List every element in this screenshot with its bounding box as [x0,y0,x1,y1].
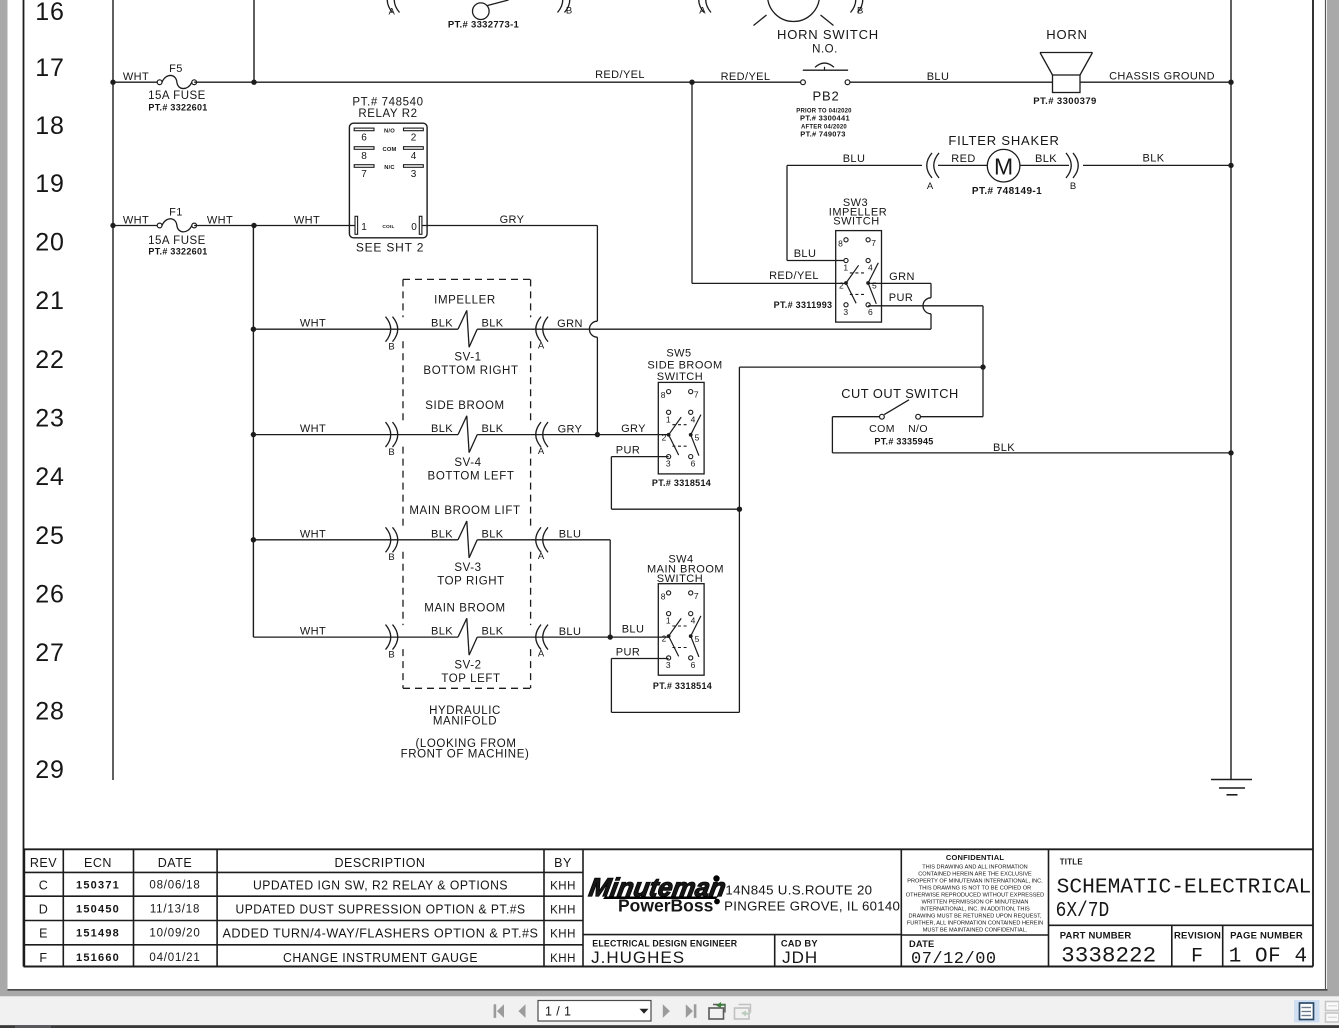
svg-text:D: D [39,902,49,916]
svg-text:MAIN BROOM LIFT: MAIN BROOM LIFT [409,505,520,517]
svg-text:15A FUSE: 15A FUSE [148,90,206,102]
connector A SV-2 [536,625,541,650]
svg-text:4: 4 [868,263,873,273]
wire WHT F1 to relay R2 coil [194,225,355,227]
svg-text:15A FUSE: 15A FUSE [148,235,206,247]
wire BLK horn to chassis ground bus [1080,81,1231,83]
svg-text:F5: F5 [169,63,183,75]
svg-text:2: 2 [839,281,844,291]
svg-text:N/C: N/C [384,165,395,171]
svg-text:04/01/21: 04/01/21 [149,952,200,964]
svg-text:FURTHER, ALL INFORMATION CONTA: FURTHER, ALL INFORMATION CONTAINED HEREI… [907,920,1043,926]
SW5 pin 4 [689,410,693,414]
svg-text:F1: F1 [169,207,183,219]
svg-text:E: E [39,927,48,941]
svg-text:BLU: BLU [927,71,950,83]
svg-text:SW5: SW5 [666,348,691,360]
drawing frame left border [23,0,25,967]
svg-text:KHH: KHH [550,904,576,916]
svg-text:24: 24 [35,463,64,491]
connector B SV-4 [393,422,398,447]
svg-text:BLK: BLK [482,626,504,638]
Minuteman logo [587,874,728,902]
wire WHT to SV-3 [253,539,458,541]
node junction GRY [595,432,600,437]
svg-text:SV-4: SV-4 [454,457,481,469]
relay R2 body [349,123,427,238]
svg-text:REVISION: REVISION [1174,931,1221,942]
svg-text:2: 2 [662,634,667,644]
svg-text:8: 8 [361,151,367,162]
svg-text:SWITCH: SWITCH [833,216,879,228]
wire RED connector to motor [938,164,988,166]
svg-text:HORN: HORN [1046,27,1087,42]
svg-text:PT.# 3311993: PT.# 3311993 [774,300,833,310]
SW3 pin 3 [844,303,848,307]
svg-text:INTERNATIONAL, INC. IN ADDITIO: INTERNATIONAL, INC. IN ADDITION, THIS [920,906,1030,912]
svg-text:KHH: KHH [550,929,576,941]
wire PUR vertical to cut out switch [982,306,984,417]
fuse F5 15A [157,80,162,85]
horn speaker symbol [1053,75,1081,93]
svg-text:PUR: PUR [616,445,640,457]
svg-text:PT.# 3332773-1: PT.# 3332773-1 [448,20,520,31]
confidential box [900,849,902,966]
switch SW4 body [658,584,704,676]
svg-text:6: 6 [691,459,696,469]
wire N/O to PUR vertical [921,416,984,418]
solenoid coil SV-4 [458,416,477,453]
wire GRY SV-4 to junction [531,434,669,436]
svg-text:7: 7 [871,238,876,248]
svg-text:BLU: BLU [559,626,582,638]
svg-text:PT.# 749073: PT.# 749073 [800,130,845,139]
svg-text:RELAY R2: RELAY R2 [358,108,417,120]
svg-text:F: F [39,951,47,965]
svg-text:JDH: JDH [782,948,818,967]
SW4 pin 2 common pole [667,634,671,638]
svg-text:MAIN BROOM: MAIN BROOM [424,602,505,614]
chassis ground symbol [1211,779,1252,781]
svg-text:BOTTOM RIGHT: BOTTOM RIGHT [423,365,518,377]
svg-text:M: M [994,154,1013,180]
svg-text:3338222: 3338222 [1061,944,1156,969]
wire WHT to fuse F5 [113,81,160,83]
svg-text:BLK: BLK [993,442,1015,454]
svg-text:5: 5 [695,433,700,443]
svg-text:16: 16 [35,0,64,26]
svg-text:BLU: BLU [794,248,817,260]
connector B SV-2 [393,625,398,650]
pdf viewer bottom toolbar [0,991,1339,996]
hydraulic manifold dashed enclosure [402,279,404,317]
motor M filter shaker [987,149,1020,182]
svg-text:THIS DRAWING IS NOT TO BE COPI: THIS DRAWING IS NOT TO BE COPIED OR [919,885,1031,891]
SW5 pin 8 [667,390,671,394]
relay R2 coil pin 1 [355,216,358,234]
svg-text:A: A [927,181,934,192]
svg-text:B: B [388,342,394,353]
svg-text:PT.# 748149-1: PT.# 748149-1 [972,186,1042,197]
toolbar page box 1/1 [538,1001,651,1022]
svg-text:8: 8 [661,591,666,601]
svg-text:PowerBoss: PowerBoss [618,896,714,916]
svg-text:SCHEMATIC-ELECTRICAL: SCHEMATIC-ELECTRICAL [1057,877,1312,900]
svg-text:SV-2: SV-2 [454,659,481,671]
svg-text:DESCRIPTION: DESCRIPTION [335,856,426,870]
svg-text:21: 21 [35,287,64,315]
node junction WHT bus / SV-4 [251,432,256,437]
svg-text:PT.# 3335945: PT.# 3335945 [874,437,933,447]
SW4 pin 7 [689,591,693,595]
svg-text:FILTER SHAKER: FILTER SHAKER [948,133,1059,148]
svg-text:GRN: GRN [557,318,583,330]
svg-text:8: 8 [661,390,666,400]
svg-text:22: 22 [35,346,64,374]
svg-text:29: 29 [35,756,64,784]
wire right chassis-ground bus BLK vertical [1230,0,1232,780]
svg-text:BLK: BLK [431,626,453,638]
svg-text:BLK: BLK [482,423,504,435]
svg-text:SWITCH: SWITCH [657,371,703,383]
svg-text:COM: COM [382,147,396,153]
toolbar single-page-view button (active) [1294,1000,1320,1023]
svg-text:23: 23 [35,405,64,433]
node junction horn wire / right bus [1228,80,1233,85]
sheet bottom edge [8,989,1328,991]
wire PUR SW5 pin3 loop [611,456,668,458]
SW5 pin 5 common pole [689,433,693,437]
svg-text:PUR: PUR [616,647,640,659]
svg-text:RED/YEL: RED/YEL [769,270,819,282]
svg-text:REV: REV [30,856,57,870]
svg-text:SEE SHT 2: SEE SHT 2 [356,241,424,255]
SW4 contact blades [669,618,682,636]
svg-text:TOP LEFT: TOP LEFT [441,673,500,685]
wire PUR SW3 pin6 [868,305,983,307]
wire WHT to SV-4 [253,434,458,436]
svg-text:26: 26 [35,581,64,609]
svg-text:UPDATED DUST SUPRESSION OPTION: UPDATED DUST SUPRESSION OPTION & PT.#S [236,902,526,916]
solenoid coil SV-2 [458,618,477,655]
wire SV-2 to connector A [477,636,531,638]
svg-text:B: B [566,6,572,17]
node junction left bus / F5 row [110,80,115,85]
svg-text:08/06/18: 08/06/18 [149,880,200,892]
SW3 pin 8 [844,238,848,242]
svg-text:6X/7D: 6X/7D [1056,900,1110,923]
svg-text:CUT OUT SWITCH: CUT OUT SWITCH [841,386,958,401]
svg-text:TOP RIGHT: TOP RIGHT [437,576,505,588]
svg-text:PB2: PB2 [813,89,840,104]
SW4 pin 5 common pole [689,634,693,638]
SW4 pin 1 [667,612,671,616]
svg-text:A: A [538,648,545,659]
toolbar scrolling-view button (inactive, clipped) [1326,1002,1339,1023]
svg-text:WHT: WHT [300,528,326,540]
svg-text:F: F [1191,946,1203,969]
svg-text:1 OF 4: 1 OF 4 [1229,946,1308,969]
svg-text:11/13/18: 11/13/18 [150,903,200,915]
svg-text:GRY: GRY [621,423,646,435]
SW5 pin 1 [667,410,671,414]
svg-text:PT.# 3322601: PT.# 3322601 [148,247,207,257]
node junction WHT bus / SV-1 [251,327,256,332]
relay R2 contact terminals 8/4 (COM) [354,147,374,150]
wire RED/YEL drop to SW3 pin 2 [691,82,693,283]
lamp (top partial) [768,0,820,22]
svg-text:SIDE BROOM: SIDE BROOM [425,400,504,412]
svg-text:FRONT OF MACHINE): FRONT OF MACHINE) [401,749,530,761]
connector B (top partial 2) [858,0,863,13]
svg-text:BY: BY [554,856,572,870]
node junction WHT bus / SV-3 [251,537,256,542]
svg-text:BLU: BLU [559,529,582,541]
wire WHT to fuse F1 [113,225,160,227]
wire GRN SW3 pin5 [868,282,931,284]
svg-text:KHH: KHH [550,881,576,893]
SW4 pin 8 [667,591,671,595]
svg-text:WHT: WHT [123,71,149,83]
wire BLK to right bus [1083,164,1231,166]
SW3 pin 7 [866,238,870,242]
svg-text:PT.# 3300441: PT.# 3300441 [800,114,850,123]
svg-text:10/09/20: 10/09/20 [149,928,200,940]
wire BLU SW3 pin1 net to filter shaker [786,165,788,260]
solenoid coil SV-1 [458,310,477,347]
relay R2 coil pin 0 [419,216,422,234]
svg-text:RED/YEL: RED/YEL [721,71,771,83]
node junction left bus / F1 row [110,223,115,228]
connector A filter shaker [927,153,932,178]
svg-text:A: A [389,7,396,18]
svg-text:1: 1 [361,222,367,233]
connector B SV-1 [393,317,398,342]
node junction RED/YEL SW3 branch [689,80,694,85]
svg-text:8: 8 [838,238,843,248]
svg-text:GRN: GRN [889,271,915,283]
svg-text:WHT: WHT [207,215,233,227]
title cell [1049,924,1314,926]
svg-text:MUST BE MAINTAINED CONFIDENTIA: MUST BE MAINTAINED CONFIDENTIAL. [923,927,1028,933]
svg-text:7: 7 [361,169,367,180]
svg-text:BOTTOM LEFT: BOTTOM LEFT [428,471,515,483]
title block strip top border [24,848,1314,850]
connector A SV-3 [536,527,541,552]
svg-text:151660: 151660 [76,952,120,964]
SW3 pin 4 [866,258,870,262]
node junction RED/YEL riser [251,80,256,85]
wire SV-3 to connector A [477,539,531,541]
svg-text:CONTAINED HEREIN ARE THE EXCLU: CONTAINED HEREIN ARE THE EXCLUSIVE [918,871,1032,877]
SW5 pin 7 [689,390,693,394]
SW4 pin 3 [667,656,671,660]
connector A (top partial 2) [699,0,704,13]
svg-text:3: 3 [666,660,671,670]
svg-text:3: 3 [411,169,417,180]
svg-text:UPDATED IGN SW, R2 RELAY & OPT: UPDATED IGN SW, R2 RELAY & OPTIONS [253,879,508,893]
svg-text:19: 19 [35,170,64,198]
svg-text:7: 7 [694,591,699,601]
svg-text:PINGREE GROVE, IL 60140: PINGREE GROVE, IL 60140 [724,899,900,914]
svg-text:PT.# 3322601: PT.# 3322601 [148,103,207,113]
svg-text:2: 2 [411,133,417,144]
connector B SV-3 [393,527,398,552]
svg-text:DATE: DATE [909,939,934,949]
svg-text:A: A [538,446,545,457]
svg-text:28: 28 [35,698,64,726]
svg-text:RED: RED [951,153,975,165]
svg-text:MANIFOLD: MANIFOLD [433,716,497,728]
svg-text:SV-1: SV-1 [454,352,481,364]
svg-text:N/O: N/O [908,423,928,435]
svg-text:WHT: WHT [123,215,149,227]
SW4 dashed couplers [672,625,688,627]
svg-text:ELECTRICAL DESIGN ENGINEER: ELECTRICAL DESIGN ENGINEER [592,938,737,948]
wire RED/YEL F5 to PB2 [194,81,800,83]
SW5 pin 6 [689,455,693,459]
svg-text:A: A [538,551,545,562]
svg-text:PROPERTY OF MINUTEMAN INTERNAT: PROPERTY OF MINUTEMAN INTERNATIONAL, INC… [907,878,1043,884]
svg-text:5: 5 [872,281,877,291]
wire GRY vertical with hop over GRN [596,226,598,322]
svg-text:BLK: BLK [431,318,453,330]
pushbutton PB2 horn switch N.O. [801,80,806,85]
connector A SV-4 [536,422,541,447]
relay R2 contact terminals 6/2 (N/O) [354,128,374,131]
SW5 dashed couplers [672,424,688,426]
svg-text:0: 0 [411,222,417,233]
svg-text:ADDED TURN/4-WAY/FLASHERS OPTI: ADDED TURN/4-WAY/FLASHERS OPTION & PT.#S [223,927,539,941]
svg-text:20: 20 [35,229,64,257]
svg-text:IMPELLER: IMPELLER [434,295,496,307]
svg-text:WHT: WHT [300,423,326,435]
svg-text:DATE: DATE [158,856,192,870]
node junction PUR riser [737,507,742,512]
svg-text:J.HUGHES: J.HUGHES [591,948,685,967]
svg-text:WHT: WHT [294,215,320,227]
svg-text:BLK: BLK [1143,153,1165,165]
svg-text:RED/YEL: RED/YEL [595,69,645,81]
wire BLU PB2 to horn [850,81,1053,83]
svg-text:PT.# 3318514: PT.# 3318514 [653,681,712,691]
svg-text:CONFIDENTIAL: CONFIDENTIAL [946,853,1004,862]
svg-text:CAD BY: CAD BY [781,938,818,948]
svg-text:DRAWING MUST BE RETURNED UPON: DRAWING MUST BE RETURNED UPON REQUEST, [908,913,1041,919]
svg-text:CHANGE INSTRUMENT GAUGE: CHANGE INSTRUMENT GAUGE [283,951,478,965]
svg-text:B: B [388,552,394,563]
wire WHT to SV-2 [253,636,458,638]
svg-text:BLK: BLK [482,318,504,330]
SW4 pin 4 [689,612,693,616]
svg-text:1 / 1: 1 / 1 [545,1005,571,1019]
wire BLK motor to connector [1020,164,1069,166]
svg-text:150371: 150371 [76,880,120,892]
svg-text:B: B [1070,181,1076,192]
svg-text:A: A [699,6,706,17]
connector A (top partial) [387,0,392,13]
svg-text:B: B [388,649,394,660]
toolbar next-view icon (disabled) [735,1005,752,1020]
svg-text:6: 6 [868,307,873,317]
svg-text:BLU: BLU [622,624,645,636]
SW3 pin 5 common pole [866,281,870,285]
drawing frame bottom border [24,966,1314,968]
svg-text:6: 6 [691,660,696,670]
toolbar first-page button [494,1004,497,1018]
svg-text:151498: 151498 [76,928,120,940]
svg-text:14N845 U.S.ROUTE 20: 14N845 U.S.ROUTE 20 [725,883,872,898]
svg-text:5: 5 [695,634,700,644]
switch (top partial) PT.# 3332773-1 [473,3,490,20]
svg-text:SV-3: SV-3 [454,562,481,574]
svg-text:1: 1 [666,414,671,424]
wire GRN vertical with hop over PUR [930,283,932,297]
wire SV-1 to connector A [477,328,531,330]
svg-text:18: 18 [35,112,64,140]
wire GRY relay coil to switch net [422,225,598,227]
svg-text:PUR: PUR [889,292,913,304]
relay R2 contact terminals 7/3 (N/C) [354,165,374,168]
svg-text:3: 3 [666,459,671,469]
toolbar next-page button [663,1004,670,1018]
SW3 pin 1 [844,258,848,262]
wire left supply bus WHT vertical [112,0,114,780]
wire WHT to SV-1 [253,328,458,330]
svg-text:WRITTEN PERMISSION OF MINUTEMA: WRITTEN PERMISSION OF MINUTEMAN [922,899,1029,905]
svg-text:1: 1 [666,616,671,626]
svg-text:27: 27 [35,639,64,667]
wire PUR SW4 pin3 loop [611,658,668,660]
wire COM to BLK return [832,416,879,418]
svg-text:BLK: BLK [1035,153,1057,165]
svg-text:SIDE BROOM: SIDE BROOM [647,360,722,372]
svg-text:N.O.: N.O. [812,44,838,56]
svg-text:2: 2 [662,432,667,442]
svg-text:PT.# 3318514: PT.# 3318514 [652,478,711,488]
svg-text:ECN: ECN [84,856,112,870]
node junction PUR net [980,364,985,369]
svg-text:PART NUMBER: PART NUMBER [1060,931,1132,942]
svg-text:KHH: KHH [550,953,576,965]
node junction WHT bus [251,223,256,228]
sheet right edge line [1325,0,1327,990]
svg-text:7: 7 [694,390,699,400]
wire BLU SV-3 [531,539,610,541]
switch SW3 body [836,231,882,323]
wire RED/YEL riser to upper sheet area [253,0,255,82]
svg-text:CHASSIS GROUND: CHASSIS GROUND [1109,71,1215,83]
svg-text:COIL: COIL [382,224,394,230]
toolbar previous-view icon [709,1002,726,1019]
wire PUR junction to SW5/SW4 net [739,366,983,368]
connector B filter shaker [1073,153,1078,178]
svg-text:07/12/00: 07/12/00 [911,950,997,969]
logo underline swash [603,897,718,900]
node junction BLK / right bus [1228,450,1233,455]
switch cut-out contacts [880,414,885,419]
svg-text:A: A [538,340,545,351]
svg-text:OTHERWISE REPRODUCED WITHOUT E: OTHERWISE REPRODUCED WITHOUT EXPRESSED [906,892,1044,898]
SW5 pin 2 common pole [667,433,671,437]
wire WHT solenoid bus vertical [252,226,254,638]
fuse F1 15A [157,223,162,228]
node junction BLU SV-3/SV-2 [608,634,613,639]
wire BLK to right bus [832,452,1231,454]
svg-text:BLK: BLK [431,528,453,540]
svg-text:C: C [39,879,49,893]
svg-text:PT.# 748540: PT.# 748540 [352,97,423,109]
